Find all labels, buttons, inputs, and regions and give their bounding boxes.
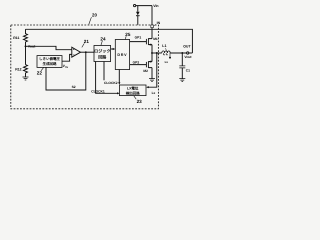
node Vout (divider tap) bbox=[25, 45, 27, 47]
svg-text:R12: R12 bbox=[15, 68, 21, 72]
svg-text:LX電位: LX電位 bbox=[127, 86, 139, 91]
svg-text:Lx: Lx bbox=[165, 60, 169, 64]
svg-text:VTH: VTH bbox=[63, 64, 69, 69]
node under inductor bbox=[169, 53, 171, 59]
wire GP1 gate drive bbox=[130, 41, 147, 43]
svg-text:CLOCK1: CLOCK1 bbox=[91, 89, 105, 93]
svg-text:Vin: Vin bbox=[153, 4, 158, 8]
label 24 leader bbox=[101, 41, 102, 45]
logic circuit box 24 bbox=[94, 46, 111, 62]
wire comparator output bbox=[81, 51, 95, 53]
wire inductor to OUT bbox=[170, 52, 186, 54]
ground (C1) bbox=[179, 79, 185, 82]
resistor R11 bbox=[24, 29, 28, 46]
wire divider mid bbox=[25, 46, 27, 64]
svg-text:24: 24 bbox=[100, 37, 106, 42]
wire GP2 gate drive bbox=[130, 64, 147, 66]
pin IN bbox=[151, 24, 156, 27]
wire hysteresis feedback loop bbox=[46, 52, 86, 90]
ground (R12) bbox=[23, 77, 29, 80]
label 22 leader bbox=[41, 68, 44, 71]
svg-text:R11: R11 bbox=[13, 36, 19, 40]
wire Vin to M1 drain bbox=[151, 6, 153, 39]
transistor M2 bbox=[146, 61, 152, 68]
wire to comparator + input bbox=[26, 46, 72, 49]
terminal Vin bbox=[134, 5, 153, 7]
svg-text:回路: 回路 bbox=[98, 54, 107, 59]
svg-text:21: 21 bbox=[84, 39, 90, 44]
node comparator output bbox=[85, 51, 87, 53]
svg-text:しきい値電圧: しきい値電圧 bbox=[39, 56, 60, 61]
svg-text:CLOCK2: CLOCK2 bbox=[104, 81, 118, 85]
wire M1 source to LX node bbox=[151, 45, 153, 53]
resistor R12 bbox=[24, 65, 28, 77]
diode D1 bbox=[136, 6, 140, 25]
svg-text:20: 20 bbox=[92, 13, 97, 18]
svg-text:検出回路: 検出回路 bbox=[126, 90, 140, 95]
wire M2 source to ground bbox=[151, 68, 153, 79]
ground (M2) bbox=[149, 79, 155, 82]
svg-text:Lx: Lx bbox=[152, 91, 156, 95]
node LX bbox=[151, 52, 162, 54]
terminal OUT bbox=[187, 52, 193, 54]
capacitor C1 bbox=[179, 53, 185, 79]
svg-text:Vout: Vout bbox=[184, 55, 192, 59]
op-amp U21 comparator bbox=[72, 47, 81, 57]
wire M2 drain to LX bbox=[151, 53, 153, 62]
wire LX tap to detector bbox=[146, 53, 157, 88]
svg-text:生成回路: 生成回路 bbox=[43, 61, 57, 66]
transistor M1 bbox=[146, 38, 152, 45]
wire feedback top (Vout sense to R11) bbox=[26, 29, 193, 53]
wire VTH to comparator - input bbox=[62, 54, 72, 61]
svg-text:OUT: OUT bbox=[183, 45, 191, 49]
svg-text:IN: IN bbox=[157, 21, 161, 25]
svg-text:C1: C1 bbox=[186, 69, 190, 73]
svg-text:22: 22 bbox=[37, 71, 43, 76]
wire CLOCK1 bbox=[96, 62, 120, 95]
svg-text:M2: M2 bbox=[143, 69, 148, 73]
svg-text:25: 25 bbox=[125, 32, 131, 37]
wire CLOCK2 bbox=[103, 62, 105, 81]
label 23 leader bbox=[134, 96, 136, 99]
svg-text:GP1: GP1 bbox=[135, 35, 142, 39]
svg-text:L1: L1 bbox=[162, 44, 166, 48]
inductor L1 bbox=[162, 48, 170, 55]
wire logic to DRV bbox=[111, 48, 116, 50]
threshold generator box 22 bbox=[37, 56, 62, 68]
svg-text:S2: S2 bbox=[72, 85, 76, 89]
svg-text:ロジック: ロジック bbox=[94, 48, 110, 53]
svg-text:23: 23 bbox=[137, 99, 143, 104]
LX detector box 23 bbox=[120, 85, 147, 96]
label 21 leader bbox=[82, 43, 85, 47]
svg-text:GP2: GP2 bbox=[133, 61, 140, 65]
label 25 leader bbox=[125, 36, 126, 39]
svg-text:DRV: DRV bbox=[117, 53, 127, 57]
driver box 25 DRV bbox=[115, 40, 129, 70]
IC chip 20 dashed boundary bbox=[11, 25, 159, 109]
node C1 tap bbox=[181, 52, 183, 54]
wire DRV to LX detector bbox=[118, 70, 120, 85]
svg-text:M1: M1 bbox=[153, 37, 158, 41]
label 20 leader bbox=[89, 17, 92, 24]
